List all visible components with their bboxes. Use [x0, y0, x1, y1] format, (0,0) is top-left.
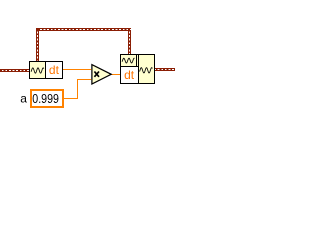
waveform glyph U2 output cell — [140, 68, 153, 73]
wire dt to multiply top input — [63, 69, 91, 70]
waveform glyph U1 — [31, 68, 44, 73]
svg-text:dt: dt — [49, 63, 60, 77]
multiply node — [92, 65, 111, 84]
wire riser from constant — [77, 79, 78, 99]
svg-text:a: a — [20, 92, 27, 106]
constant 0.999 — [31, 90, 63, 107]
waveform glyph U2 top cell — [122, 58, 134, 63]
svg-text:0.999: 0.999 — [32, 92, 59, 106]
node U1 Get Waveform Components — [30, 62, 63, 79]
wire multiply bottom input — [77, 79, 91, 80]
wire multiply output to dt input — [112, 74, 121, 75]
wire constant output — [64, 98, 78, 99]
svg-text:dt: dt — [124, 68, 135, 82]
node U2 Build Waveform — [121, 55, 155, 84]
wire waveform output right — [155, 68, 175, 71]
wire waveform input left — [0, 69, 29, 72]
wire waveform top branch — [36, 28, 131, 61]
